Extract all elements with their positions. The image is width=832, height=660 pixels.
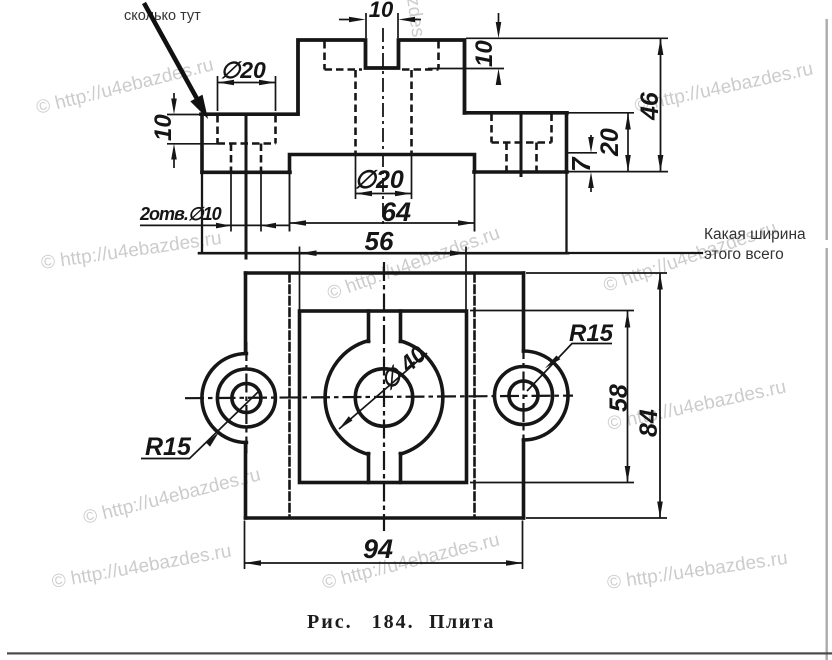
front view: left edge xyxy=(200,114,204,172)
front view: bottom recess xyxy=(290,155,475,173)
svg-text:58: 58 xyxy=(605,384,633,412)
dim 58 xyxy=(625,311,631,483)
dim Ø20 left xyxy=(218,80,276,86)
plan: inner rectangle 56x58 xyxy=(300,311,467,483)
svg-text:94: 94 xyxy=(363,534,393,564)
Ø20 center ext xyxy=(356,155,412,200)
84 ext xyxy=(526,273,667,518)
svg-text:R15: R15 xyxy=(145,433,192,461)
page bottom rule xyxy=(7,652,832,654)
watermark right-middle xyxy=(606,377,788,435)
centerlines front view xyxy=(246,28,521,260)
main vertical centerline xyxy=(382,28,384,224)
left hole axis xyxy=(245,114,248,260)
svg-text:84: 84 xyxy=(635,409,663,437)
right tab axis xyxy=(522,340,524,451)
right 7 ext xyxy=(566,152,597,154)
watermark bottom-right xyxy=(606,548,789,594)
hidden center hole Ø20 xyxy=(356,70,412,154)
bottom ext to 46/20 xyxy=(568,171,668,173)
svg-text:56: 56 xyxy=(365,226,394,256)
plan centerlines xyxy=(185,262,573,531)
caption: Рис. 184. Плита xyxy=(307,611,495,633)
svg-text:Плита: Плита xyxy=(429,611,495,633)
plan: outer right edge (interrupted by tab) xyxy=(522,273,526,518)
plan: outer left edge (interrupted by tab) xyxy=(244,273,248,518)
right 20 top ext xyxy=(568,112,634,114)
notch width ext xyxy=(366,13,398,38)
R15 right leader xyxy=(527,344,612,392)
dim 2отв Ø10 xyxy=(140,223,290,229)
plan extension lines xyxy=(245,273,668,569)
svg-text:Какая ширина: Какая ширина xyxy=(704,226,806,243)
dim 10 right xyxy=(496,13,502,85)
svg-text:∅20: ∅20 xyxy=(220,57,266,83)
svg-text:R15: R15 xyxy=(569,320,614,347)
plan: central boss circle Ø40 xyxy=(325,341,443,455)
svg-text:сколько тут: сколько тут xyxy=(124,8,201,24)
left tab axis xyxy=(245,342,247,454)
plan: channel verticals xyxy=(369,311,401,483)
note arrow xyxy=(144,3,208,119)
dim 7 right xyxy=(588,135,594,192)
watermark right-center xyxy=(601,218,780,297)
svg-text:∅20: ∅20 xyxy=(354,166,404,194)
svg-text:Рис. 184.: Рис. 184. xyxy=(307,611,415,633)
watermark vertical fragment top-center xyxy=(402,0,428,38)
plan: right tab arc R15 xyxy=(524,351,569,440)
dim 10 (notch) xyxy=(339,17,421,23)
dim 10 left xyxy=(171,93,177,168)
watermark bottom-left xyxy=(50,541,233,593)
94 ext xyxy=(245,521,523,570)
front view: band bottom left xyxy=(202,171,290,175)
left 10 ext horizontals xyxy=(167,115,218,144)
56 ext from plan inner rect up xyxy=(300,247,467,312)
horizontal centerline xyxy=(185,396,573,399)
dim Ø20 center xyxy=(356,191,412,197)
svg-text:10: 10 xyxy=(150,114,177,141)
page right border xyxy=(826,19,828,660)
plan: boss hidden edges xyxy=(290,274,475,517)
vertical centerline xyxy=(383,262,385,531)
plan: outer rectangle bottom xyxy=(246,516,524,520)
front view: band top edge right xyxy=(465,111,568,115)
svg-text:7: 7 xyxy=(566,156,596,172)
right hole axis xyxy=(520,113,523,177)
right 10 ext horizontal xyxy=(428,68,504,70)
dim 56 arrows xyxy=(300,250,467,256)
front view: band top edge left xyxy=(201,112,298,116)
plan: central hole Ø20 xyxy=(355,369,412,426)
plan: outer rectangle top xyxy=(246,271,524,275)
dim 20 right xyxy=(625,113,631,172)
extension lines (thin) front view xyxy=(167,13,668,311)
plan texts xyxy=(145,320,663,564)
watermark left-middle xyxy=(40,228,223,274)
watermark left-lower xyxy=(81,464,263,528)
top ext to 46 xyxy=(466,37,668,39)
watermark center xyxy=(325,223,503,305)
plan: left tab hole circle xyxy=(232,384,261,413)
dimension texts front view xyxy=(139,0,664,256)
plan: right tab counterbore circle xyxy=(495,367,553,425)
hidden groove sides in top block xyxy=(325,41,439,70)
front view: right edge xyxy=(565,113,569,172)
hidden right counterbore Ø20 xyxy=(492,114,552,143)
plan: right tab hole circle xyxy=(509,381,538,410)
dimension lines + arrows, front view xyxy=(140,13,663,256)
note: сколько тут xyxy=(124,8,201,24)
watermark bottom-center xyxy=(320,529,502,593)
svg-text:20: 20 xyxy=(596,128,624,157)
Ø10 ext down to 2отв dim xyxy=(231,172,261,232)
svg-text:10: 10 xyxy=(471,40,498,67)
note: Какая ширина / этого всего xyxy=(704,226,806,263)
dim 84 xyxy=(657,273,663,518)
svg-text:этого всего: этого всего xyxy=(704,246,784,263)
svg-text:2отв.∅10: 2отв.∅10 xyxy=(139,204,222,224)
front view: band bottom right xyxy=(474,170,567,174)
bottom long line (56 dim / pointer) xyxy=(199,252,568,255)
svg-text:64: 64 xyxy=(381,197,411,227)
watermark top-left xyxy=(34,54,216,118)
plan: left tab arc R15 xyxy=(202,354,246,443)
58 ext xyxy=(470,311,634,483)
svg-text:10: 10 xyxy=(369,0,394,22)
hidden left hole Ø10 xyxy=(231,144,261,172)
Ø20 left dim ext xyxy=(218,76,276,111)
plan dimensions xyxy=(141,273,663,566)
hidden right hole Ø10 xyxy=(507,143,537,172)
dim 94 xyxy=(245,560,523,566)
R15 left leader xyxy=(141,392,258,459)
hidden groove bottom xyxy=(325,68,439,71)
hidden lines (dashed) front view xyxy=(218,41,552,172)
watermark top-right xyxy=(633,59,815,117)
plan: left tab counterbore circle xyxy=(217,369,275,427)
dim 46 right xyxy=(658,38,664,171)
Ø40 leader xyxy=(339,353,427,429)
svg-text:46: 46 xyxy=(636,91,664,121)
hidden left counterbore Ø20 xyxy=(218,115,276,144)
dim 64 xyxy=(290,220,475,226)
front view: top block outline with notch xyxy=(298,40,465,114)
extension lines of 64 below recess corners xyxy=(290,172,475,231)
